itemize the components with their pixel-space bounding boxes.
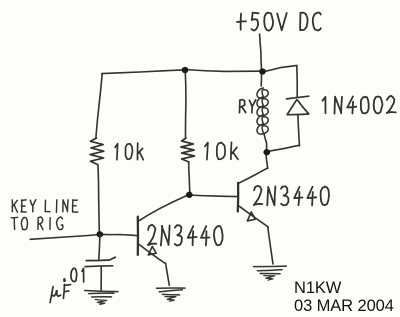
wire R2 bottom to J4 [189,162,190,194]
diode cathode lead [296,66,298,97]
wire top rail left segment [102,70,185,74]
wire C1 to ground [100,267,102,290]
node J2 supply [259,68,266,74]
capacitor C1 top plate [86,257,115,260]
label 1N4002 [323,96,396,114]
transistor Q2 emitter [239,206,268,227]
label 2N3440 Q2 [254,186,329,206]
label uF [50,284,71,302]
label 10k right [205,142,238,159]
node J1 top rail [182,67,189,73]
resistor R1 10k [90,138,104,165]
relay coil RY [257,88,268,134]
transistor Q2 2N3440 base bar [237,183,240,212]
node J4 Q1 collector / Q2 base [186,192,193,198]
typed caption N1KW [294,280,341,297]
label 10k left [115,143,143,160]
wire J4 to Q2 base [190,195,237,197]
node J5 coil bottom / Q2 collector [263,149,270,155]
label TO RIG [11,217,63,230]
wire Q2 emitter to ground [268,227,273,264]
transistor Q2 emitter arrow [247,212,255,221]
ground C1 [85,291,118,292]
ground Q1 [157,287,186,289]
wire J1 down to R2 [184,69,187,137]
transistor Q1 emitter [138,243,166,263]
wire top rail right segment [185,70,262,72]
resistor R2 10k [181,138,195,162]
transistor Q1 collector [138,195,188,221]
transistor Q1 2N3440 base bar [137,217,139,255]
wire key node to Q1 base [100,234,137,235]
transistor Q1 emitter arrow [148,246,156,255]
label KEY LINE [12,200,78,213]
wire diode anode to J5 [268,145,299,151]
wire Q2 collector to J5 [266,154,268,169]
wire key line from left [30,235,99,240]
wire left vertical to R1 [96,74,102,138]
ground Q2 [254,265,287,268]
label 2N3440 Q1 [148,225,223,246]
wire J2 to diode cathode top [263,65,297,71]
typed caption date [294,298,394,315]
diode D1 cathode bar [287,96,309,99]
diode D1 triangle [287,99,309,115]
transistor Q2 collector [239,168,268,183]
diode anode lead [298,115,300,146]
wire +50V supply lead [260,34,262,71]
label +50V DC [237,13,321,31]
wire Q1 emitter to ground [166,263,170,285]
label RY [240,100,256,113]
label .01 [64,268,84,282]
wire R1 bottom to key node [98,165,99,234]
wire J2 to coil top [260,72,262,86]
wire coil bottom to J5 [264,133,267,152]
capacitor C1 bottom plate [85,265,112,268]
wire key node to C1 [99,234,100,259]
node J3 key line [96,231,103,237]
